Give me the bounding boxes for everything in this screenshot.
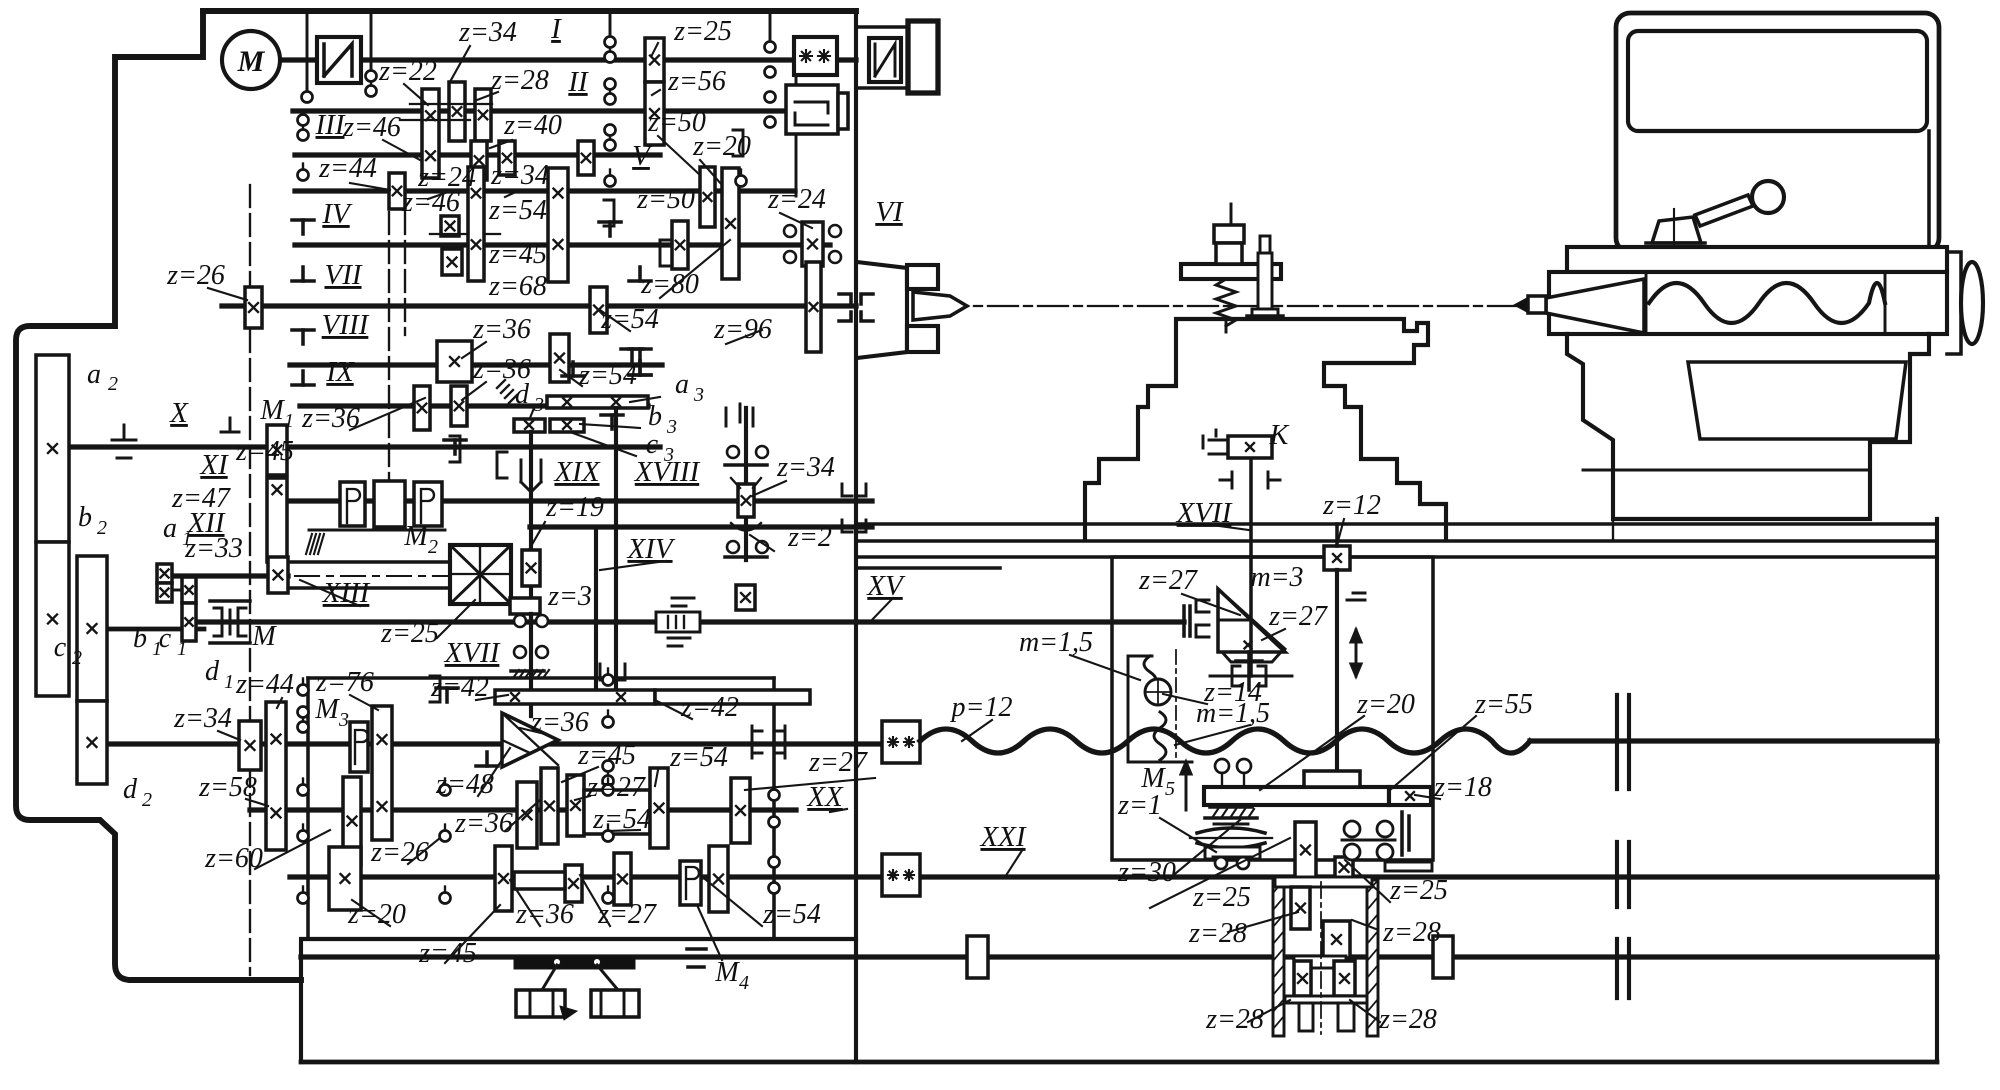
svg-text:z=34: z=34 [776, 452, 835, 483]
svg-text:d: d [515, 379, 530, 410]
svg-text:5: 5 [1165, 778, 1175, 800]
svg-text:z=54: z=54 [669, 742, 728, 773]
svg-text:XIV: XIV [626, 533, 675, 565]
svg-text:z=96: z=96 [713, 314, 772, 345]
svg-text:2: 2 [97, 517, 107, 539]
svg-text:z=27: z=27 [597, 899, 657, 930]
svg-text:3: 3 [533, 394, 544, 416]
svg-text:c: c [159, 623, 172, 654]
svg-text:IX: IX [325, 356, 355, 388]
svg-text:z=3: z=3 [547, 581, 592, 612]
svg-text:K: K [1269, 420, 1290, 451]
svg-text:z=27: z=27 [808, 747, 868, 778]
svg-text:IV: IV [321, 198, 353, 230]
svg-text:M: M [403, 521, 429, 552]
svg-text:z=40: z=40 [503, 110, 562, 141]
svg-text:z=68: z=68 [488, 271, 547, 302]
svg-text:z=46: z=46 [401, 187, 460, 218]
svg-text:b: b [648, 401, 662, 432]
svg-text:z=34: z=34 [173, 703, 232, 734]
svg-text:z=27: z=27 [1268, 601, 1328, 632]
svg-text:2: 2 [72, 647, 82, 669]
svg-text:1: 1 [284, 410, 294, 432]
svg-text:z=19: z=19 [545, 492, 604, 523]
svg-text:z=24: z=24 [767, 184, 826, 215]
svg-text:XIX: XIX [553, 456, 600, 488]
svg-text:z=18: z=18 [1433, 772, 1492, 803]
svg-text:z=25: z=25 [673, 16, 732, 47]
svg-text:z=44: z=44 [235, 669, 294, 700]
svg-text:z=45: z=45 [418, 938, 477, 969]
svg-text:1: 1 [224, 671, 234, 693]
svg-text:z=28: z=28 [1382, 917, 1441, 948]
svg-text:z=22: z=22 [378, 56, 437, 87]
svg-text:3: 3 [338, 709, 349, 731]
svg-text:z=28: z=28 [1205, 1004, 1264, 1035]
svg-text:z=28: z=28 [490, 65, 549, 96]
svg-text:a: a [87, 359, 101, 390]
svg-text:z=20: z=20 [692, 131, 751, 162]
svg-text:b: b [133, 623, 147, 654]
svg-text:M: M [251, 621, 277, 652]
svg-text:p=12: p=12 [950, 692, 1013, 723]
svg-text:z=25: z=25 [1389, 875, 1448, 906]
svg-text:M: M [259, 395, 285, 426]
svg-text:XX: XX [806, 781, 844, 813]
svg-text:3: 3 [693, 384, 704, 406]
svg-text:3: 3 [666, 416, 677, 438]
svg-text:XII: XII [186, 507, 225, 539]
svg-text:z=26: z=26 [166, 260, 225, 291]
svg-text:z=45: z=45 [488, 239, 547, 270]
svg-text:z=20: z=20 [1356, 689, 1415, 720]
svg-text:d: d [205, 656, 220, 687]
svg-text:z=26: z=26 [370, 837, 429, 868]
svg-text:d: d [123, 774, 138, 805]
svg-text:I: I [550, 13, 562, 45]
svg-text:III: III [315, 109, 346, 141]
svg-text:z=56: z=56 [667, 66, 726, 97]
svg-text:M: M [1140, 763, 1166, 794]
svg-text:z=2: z=2 [787, 522, 832, 553]
svg-text:m=3: m=3 [1250, 562, 1303, 593]
svg-text:M: M [314, 694, 340, 725]
svg-text:2: 2 [108, 373, 118, 395]
svg-text:z=34: z=34 [490, 160, 549, 191]
svg-text:VI: VI [875, 196, 904, 228]
svg-text:XI: XI [199, 449, 229, 481]
svg-text:z=1: z=1 [1117, 790, 1162, 821]
svg-text:M: M [714, 957, 740, 988]
svg-text:c: c [54, 632, 67, 663]
svg-text:M: M [237, 45, 266, 78]
svg-text:z=34: z=34 [458, 17, 517, 48]
svg-text:z=54: z=54 [578, 360, 637, 391]
svg-text:II: II [567, 66, 589, 98]
svg-text:m=1,5: m=1,5 [1196, 698, 1270, 729]
svg-text:z=55: z=55 [1474, 689, 1533, 720]
svg-text:4: 4 [739, 972, 749, 994]
svg-text:XVII: XVII [1176, 497, 1233, 529]
svg-text:XXI: XXI [979, 821, 1026, 853]
svg-text:XVIII: XVIII [634, 456, 701, 488]
svg-text:X: X [169, 397, 189, 429]
svg-text:1: 1 [177, 638, 187, 660]
svg-text:z=27: z=27 [1138, 565, 1198, 596]
svg-text:z=44: z=44 [318, 153, 377, 184]
svg-text:XVII: XVII [444, 637, 501, 669]
svg-text:z=36: z=36 [472, 314, 531, 345]
svg-text:z=25: z=25 [380, 618, 439, 649]
svg-text:VIII: VIII [322, 309, 370, 341]
svg-text:2: 2 [142, 789, 152, 811]
svg-text:2: 2 [428, 536, 438, 558]
svg-text:z=45: z=45 [577, 740, 636, 771]
svg-text:VII: VII [324, 259, 362, 291]
svg-text:b: b [78, 502, 92, 533]
svg-text:z=54: z=54 [762, 899, 821, 930]
svg-text:m=1,5: m=1,5 [1019, 627, 1093, 658]
svg-text:a: a [163, 513, 177, 544]
svg-text:z=36: z=36 [515, 899, 574, 930]
svg-text:z=58: z=58 [198, 772, 257, 803]
svg-text:z=45: z=45 [235, 436, 294, 467]
svg-text:z=27: z=27 [586, 772, 646, 803]
svg-text:z=30: z=30 [1117, 857, 1176, 888]
svg-text:z=28: z=28 [1188, 918, 1247, 949]
svg-text:z=36: z=36 [454, 808, 513, 839]
svg-text:z=54: z=54 [488, 195, 547, 226]
svg-text:XV: XV [866, 570, 906, 602]
svg-text:z=25: z=25 [1192, 882, 1251, 913]
svg-text:z=28: z=28 [1378, 1004, 1437, 1035]
svg-text:z=12: z=12 [1322, 490, 1381, 521]
svg-text:z=50: z=50 [636, 184, 695, 215]
svg-text:a: a [675, 369, 689, 400]
svg-text:z=46: z=46 [342, 112, 401, 143]
